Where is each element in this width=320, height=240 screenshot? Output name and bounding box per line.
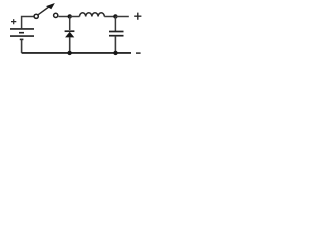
bottom rail wire bbox=[22, 52, 131, 54]
capacitor C1 bottom plate bbox=[109, 35, 124, 37]
switch S1 arrowhead bbox=[46, 3, 55, 9]
battery BT1 plus label bbox=[11, 19, 16, 24]
diode D1 cathode bar bbox=[65, 30, 75, 32]
wire switch to node A bbox=[58, 16, 69, 18]
wire node B down to capacitor bbox=[114, 17, 116, 32]
switch S1 lever bbox=[38, 7, 50, 15]
switch S1 contact circle left bbox=[34, 14, 38, 18]
node B junction dot bbox=[113, 14, 117, 18]
wire node B to output plus bbox=[115, 16, 128, 18]
wire node A down to diode bbox=[69, 17, 71, 31]
capacitor C1 top plate bbox=[109, 31, 124, 33]
junction dot diode on bottom rail bbox=[67, 51, 71, 55]
junction dot capacitor on bottom rail bbox=[113, 51, 117, 55]
wire inductor to node B bbox=[104, 16, 115, 18]
output minus terminal label bbox=[136, 52, 141, 54]
wire node A to inductor bbox=[70, 16, 80, 18]
inductor L1 bbox=[80, 13, 105, 17]
wire battery bottom stem bbox=[21, 39, 23, 53]
battery BT1 plates bbox=[10, 29, 34, 40]
switch S1 contact circle right bbox=[54, 13, 58, 17]
wire battery top to switch bbox=[22, 17, 34, 29]
wire diode to bottom rail bbox=[69, 37, 71, 53]
diode D1 triangle bbox=[65, 32, 74, 38]
wire capacitor to bottom rail bbox=[114, 36, 116, 53]
node A junction dot bbox=[68, 14, 72, 18]
output plus terminal label bbox=[134, 13, 141, 20]
